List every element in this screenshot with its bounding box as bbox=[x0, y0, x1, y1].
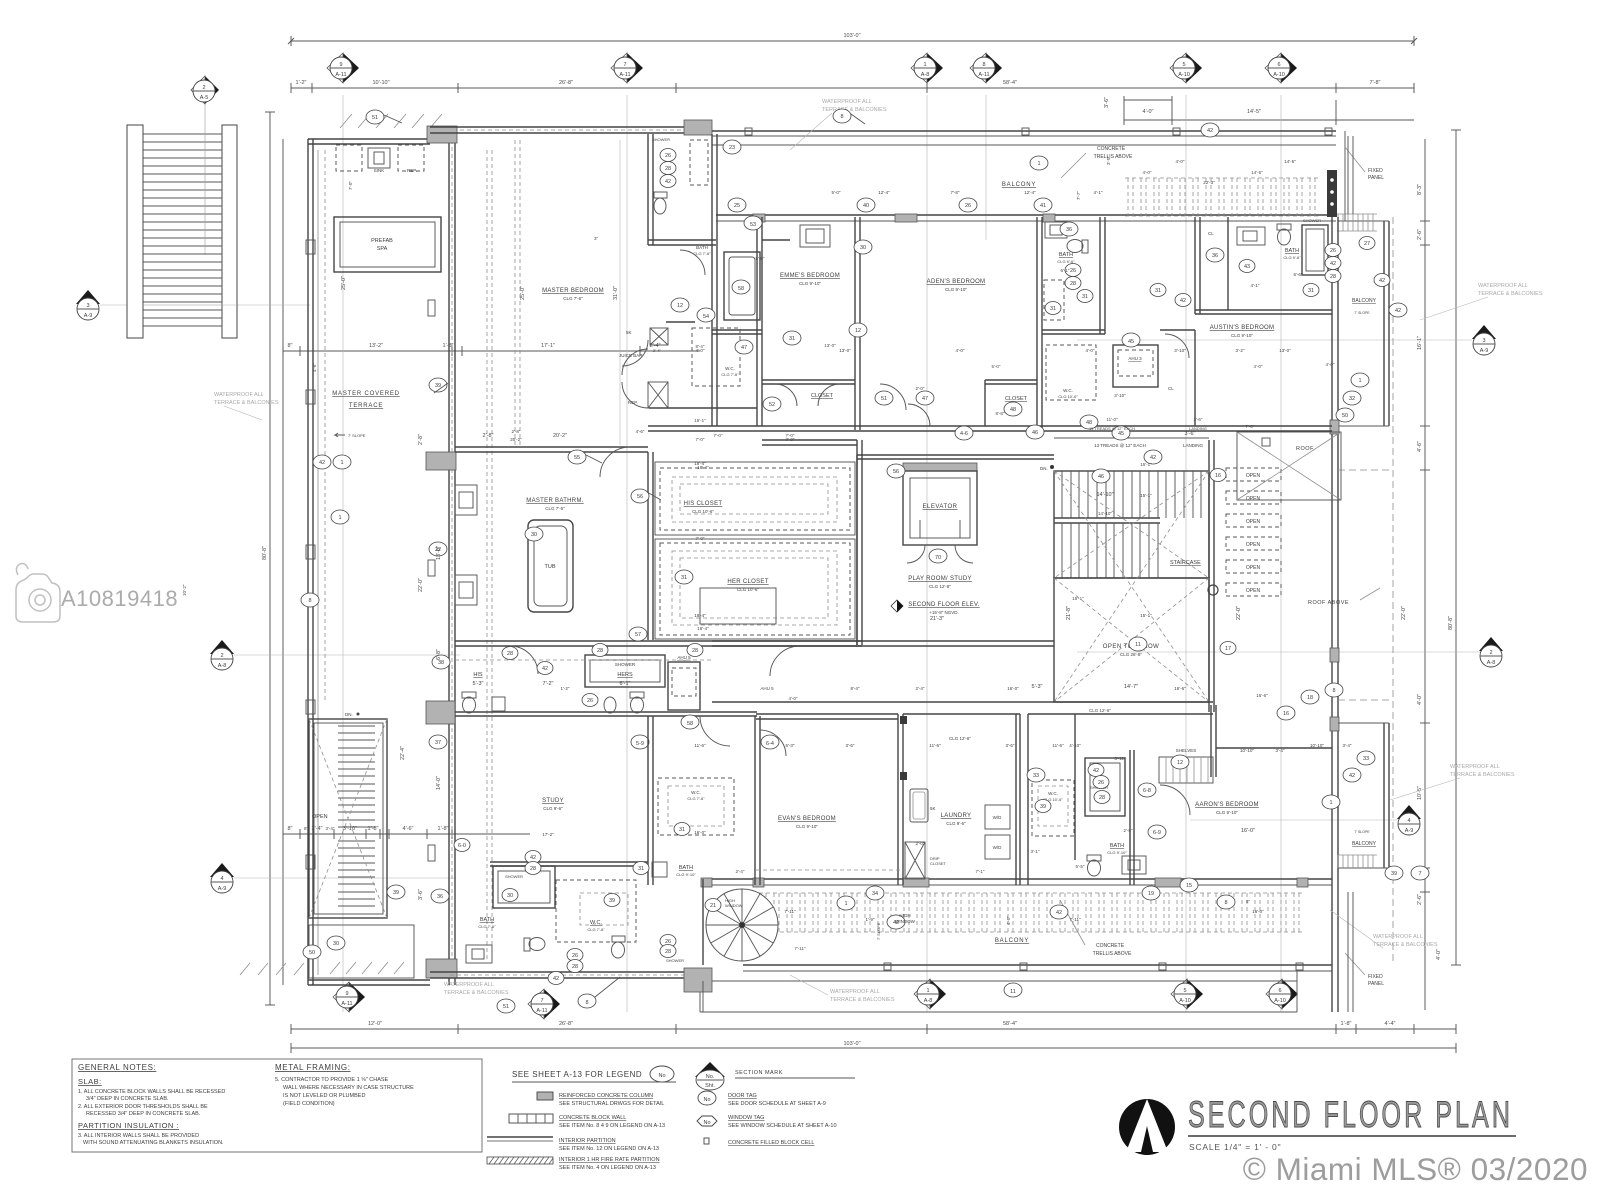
svg-text:W.C.: W.C. bbox=[1048, 791, 1058, 796]
svg-text:12'-0": 12'-0" bbox=[368, 1021, 382, 1027]
svg-text:SEE STRUCTURAL DRWGS FOR DETAI: SEE STRUCTURAL DRWGS FOR DETAIL bbox=[559, 1101, 664, 1107]
svg-text:17: 17 bbox=[1225, 646, 1231, 652]
roof box top bbox=[1237, 432, 1341, 500]
bottom dim lines bbox=[291, 1028, 1456, 1030]
marker 8/A-11 top bbox=[970, 53, 1002, 83]
staircase bbox=[1054, 471, 1209, 578]
svg-text:30: 30 bbox=[333, 941, 339, 947]
svg-text:6-0: 6-0 bbox=[458, 843, 466, 849]
svg-text:7: 7 bbox=[1418, 871, 1421, 877]
wc evans dashed bbox=[658, 778, 734, 835]
svg-text:2'-0": 2'-0" bbox=[916, 841, 925, 846]
marker 2/A-8 left bbox=[210, 640, 234, 670]
svg-text:30: 30 bbox=[531, 532, 537, 538]
svg-text:3'-6": 3'-6" bbox=[1104, 97, 1110, 108]
svg-text:28: 28 bbox=[572, 964, 578, 970]
svg-text:13'-2": 13'-2" bbox=[369, 343, 383, 349]
svg-text:TERRACE & BALCONIES: TERRACE & BALCONIES bbox=[1450, 772, 1515, 778]
svg-text:CLG 7'-6": CLG 7'-6" bbox=[587, 927, 605, 932]
svg-text:42: 42 bbox=[553, 976, 559, 982]
stair treads bbox=[143, 134, 222, 326]
svg-text:51: 51 bbox=[372, 115, 378, 121]
hers/his bath row walls bbox=[455, 712, 757, 716]
svg-text:WATERPROOF ALL: WATERPROOF ALL bbox=[1450, 764, 1500, 770]
svg-text:CONCRETE: CONCRETE bbox=[1096, 943, 1125, 949]
svg-text:TERRACE & BALCONIES: TERRACE & BALCONIES bbox=[822, 107, 887, 113]
svg-text:WINDOW TAG: WINDOW TAG bbox=[728, 1115, 764, 1121]
svg-text:No: No bbox=[658, 1073, 665, 1079]
svg-text:INTERIOR 1 HR FIRE RATE PARTIT: INTERIOR 1 HR FIRE RATE PARTITION bbox=[559, 1157, 660, 1163]
svg-text:CLG 7'-6": CLG 7'-6" bbox=[545, 506, 565, 511]
svg-text:40: 40 bbox=[863, 203, 869, 209]
svg-text:AHU 5: AHU 5 bbox=[760, 686, 774, 691]
svg-text:5'-0": 5'-0" bbox=[832, 190, 841, 195]
svg-text:26: 26 bbox=[1330, 248, 1336, 254]
svg-text:CLOSET: CLOSET bbox=[811, 393, 834, 399]
aden bath bbox=[1042, 330, 1105, 334]
svg-text:CLG 9'-6": CLG 9'-6" bbox=[946, 821, 966, 826]
svg-text:BATH: BATH bbox=[480, 917, 494, 923]
svg-text:DOOR TAG: DOOR TAG bbox=[728, 1093, 757, 1099]
svg-text:2'-4": 2'-4" bbox=[653, 348, 662, 353]
svg-text:8": 8" bbox=[1246, 899, 1251, 904]
svg-text:46: 46 bbox=[1098, 474, 1104, 480]
svg-text:23: 23 bbox=[729, 145, 735, 151]
AHU 5 bbox=[668, 662, 700, 710]
svg-text:A-10: A-10 bbox=[1178, 72, 1190, 78]
hall door arc bbox=[700, 716, 730, 746]
svg-text:W.C.: W.C. bbox=[725, 366, 735, 371]
svg-text:80'-8": 80'-8" bbox=[262, 546, 268, 560]
grid lines horizontal bbox=[100, 305, 1480, 878]
svg-text:12: 12 bbox=[855, 328, 861, 334]
svg-text:58: 58 bbox=[738, 286, 744, 292]
svg-text:8: 8 bbox=[308, 598, 311, 604]
svg-text:TRELLIS ABOVE: TRELLIS ABOVE bbox=[1094, 154, 1133, 160]
svg-text:SPA: SPA bbox=[377, 246, 388, 252]
svg-text:39: 39 bbox=[1391, 871, 1397, 877]
scattered tags bbox=[366, 110, 384, 124]
svg-text:4'-6": 4'-6" bbox=[403, 826, 414, 832]
logo bbox=[1119, 1099, 1175, 1155]
svg-text:3'-2": 3'-2" bbox=[1236, 348, 1245, 353]
roof above dashed line bbox=[1392, 217, 1394, 965]
svg-text:PLAY ROOM/ STUDY: PLAY ROOM/ STUDY bbox=[908, 576, 972, 582]
svg-text:3/4" DEEP IN CONCRETE SLAB.: 3/4" DEEP IN CONCRETE SLAB. bbox=[86, 1096, 169, 1102]
svg-text:16: 16 bbox=[1283, 711, 1289, 717]
svg-text:4'-0": 4'-0" bbox=[1326, 362, 1335, 367]
svg-text:15'-1": 15'-1" bbox=[1140, 462, 1152, 467]
svg-text:DN.: DN. bbox=[1040, 466, 1048, 471]
svg-text:EMME'S BEDROOM: EMME'S BEDROOM bbox=[780, 273, 840, 279]
svg-text:7' SLOPE: 7' SLOPE bbox=[1354, 830, 1370, 834]
svg-text:26: 26 bbox=[665, 153, 671, 159]
legend right: concrete filled block cell bbox=[704, 1138, 709, 1144]
svg-text:HERS: HERS bbox=[617, 672, 633, 678]
svg-text:BALCONY: BALCONY bbox=[995, 938, 1029, 944]
svg-text:2'-8": 2'-8" bbox=[418, 434, 424, 445]
svg-text:16: 16 bbox=[1215, 473, 1221, 479]
svg-text:6-8: 6-8 bbox=[1143, 788, 1151, 794]
svg-text:REINFORCED CONCRETE COLUMN: REINFORCED CONCRETE COLUMN bbox=[559, 1093, 653, 1099]
svg-text:12: 12 bbox=[1177, 760, 1183, 766]
svg-text:SHOWER: SHOWER bbox=[1303, 218, 1321, 223]
svg-text:13'-0": 13'-0" bbox=[839, 348, 851, 353]
emme bath corner bbox=[762, 239, 790, 241]
stair rail left bbox=[127, 125, 143, 338]
svg-text:MASTER COVERED: MASTER COVERED bbox=[332, 391, 400, 397]
svg-text:BALCONY: BALCONY bbox=[1352, 298, 1377, 304]
east house wall bbox=[1332, 217, 1338, 1012]
master bath NE block walls bbox=[648, 134, 653, 245]
svg-text:SHELVES: SHELVES bbox=[1176, 748, 1196, 753]
shower master bath bbox=[690, 140, 708, 185]
svg-text:37: 37 bbox=[435, 740, 441, 746]
svg-text:16'-0": 16'-0" bbox=[694, 830, 706, 835]
svg-text:TERRACE & BALCONIES: TERRACE & BALCONIES bbox=[444, 990, 509, 996]
svg-text:4'-0": 4'-0" bbox=[1417, 694, 1423, 705]
svg-text:42: 42 bbox=[1150, 455, 1156, 461]
south wall west part bbox=[430, 972, 703, 978]
svg-text:4'-0": 4'-0" bbox=[1254, 364, 1263, 369]
svg-text:1: 1 bbox=[926, 988, 929, 994]
svg-text:2'-8": 2'-8" bbox=[1124, 828, 1133, 833]
closet near aden bbox=[985, 380, 1037, 426]
svg-text:11'-0": 11'-0" bbox=[1106, 417, 1118, 422]
svg-text:9: 9 bbox=[339, 62, 342, 68]
svg-text:31: 31 bbox=[1155, 288, 1161, 294]
evans bedroom bbox=[756, 714, 898, 719]
svg-text:42: 42 bbox=[665, 179, 671, 185]
sink counter bbox=[336, 145, 362, 171]
svg-text:4'-0": 4'-0" bbox=[1176, 159, 1185, 164]
svg-text:4'-6": 4'-6" bbox=[636, 429, 645, 434]
tag circle 11 bottom right bbox=[1004, 983, 1022, 997]
svg-text:5. CONTRACTOR TO PROVIDE 1 ⅝: 5. CONTRACTOR TO PROVIDE 1 ⅝" CHASE bbox=[275, 1077, 389, 1083]
emme closet bbox=[762, 380, 855, 384]
svg-text:27: 27 bbox=[1364, 241, 1370, 247]
svg-text:2'-4": 2'-4" bbox=[736, 869, 745, 874]
ahu3 bbox=[1113, 345, 1158, 387]
svg-text:CLG 10'-6": CLG 10'-6" bbox=[737, 587, 759, 592]
svg-text:6-4: 6-4 bbox=[766, 741, 774, 747]
svg-text:3'-6": 3'-6" bbox=[1194, 417, 1203, 422]
svg-text:7'-0": 7'-0" bbox=[696, 536, 705, 541]
svg-text:A-11: A-11 bbox=[536, 1008, 547, 1014]
svg-text:No.: No. bbox=[706, 1074, 715, 1080]
svg-text:7'-7": 7'-7" bbox=[1076, 191, 1081, 200]
svg-text:4'-1": 4'-1" bbox=[1251, 283, 1260, 288]
svg-text:CLG 9'-10": CLG 9'-10" bbox=[676, 872, 696, 877]
svg-text:14'-5": 14'-5" bbox=[1284, 159, 1296, 164]
svg-text:31: 31 bbox=[1082, 294, 1088, 300]
svg-text:4'-6": 4'-6" bbox=[1417, 441, 1423, 452]
svg-text:50: 50 bbox=[309, 950, 315, 956]
svg-text:4'-4": 4'-4" bbox=[1385, 1021, 1396, 1027]
svg-text:42: 42 bbox=[1093, 768, 1099, 774]
east wall of staircase bbox=[1209, 440, 1214, 712]
svg-text:22'-4": 22'-4" bbox=[400, 746, 406, 760]
marker 4/A-9 right bbox=[1397, 805, 1421, 835]
svg-text:CLG 7'-6": CLG 7'-6" bbox=[687, 796, 705, 801]
svg-text:CLG 9'-6": CLG 9'-6" bbox=[543, 806, 563, 811]
svg-text:26: 26 bbox=[1098, 780, 1104, 786]
svg-text:42: 42 bbox=[1207, 128, 1213, 134]
svg-text:WATERPROOF ALL: WATERPROOF ALL bbox=[830, 989, 880, 995]
svg-text:SEE ITEM No. 8 4 9 ON LEGEND: SEE ITEM No. 8 4 9 ON LEGEND ON A-13 bbox=[559, 1123, 665, 1129]
wall above austin bbox=[1195, 310, 1332, 314]
svg-text:W.C.: W.C. bbox=[1063, 388, 1073, 393]
svg-text:DN.: DN. bbox=[345, 712, 353, 717]
svg-text:LANDING: LANDING bbox=[1189, 426, 1207, 431]
svg-text:REP.: REP. bbox=[407, 168, 417, 173]
svg-text:2: 2 bbox=[1489, 650, 1492, 656]
open slats bbox=[1226, 468, 1281, 481]
svg-text:11'-6": 11'-6" bbox=[1052, 743, 1064, 748]
svg-text:39: 39 bbox=[609, 898, 615, 904]
svg-text:CLG 7'-6": CLG 7'-6" bbox=[563, 296, 583, 301]
north wall master bedroom bbox=[430, 127, 712, 133]
svg-text:4-6: 4-6 bbox=[960, 431, 968, 437]
closet east wall bbox=[857, 440, 862, 645]
her closet dashed bbox=[660, 543, 850, 635]
svg-text:42: 42 bbox=[1056, 910, 1062, 916]
svg-text:CLG 12'-6": CLG 12'-6" bbox=[1089, 708, 1111, 713]
svg-text:STUDY: STUDY bbox=[542, 798, 564, 804]
svg-text:A-8: A-8 bbox=[218, 663, 227, 669]
band bottom wall bbox=[455, 641, 862, 646]
svg-text:3'-1": 3'-1" bbox=[1031, 849, 1040, 854]
svg-text:7'-0": 7'-0" bbox=[714, 433, 723, 438]
south balcony rail bbox=[743, 964, 1332, 966]
svg-text:12'-4": 12'-4" bbox=[1024, 190, 1036, 195]
svg-text:18: 18 bbox=[1307, 695, 1313, 701]
svg-text:22'-0": 22'-0" bbox=[1401, 606, 1407, 620]
his toilet bbox=[462, 692, 476, 698]
svg-text:WATERPROOF ALL: WATERPROOF ALL bbox=[1373, 934, 1423, 940]
svg-text:CLG 9'-10": CLG 9'-10" bbox=[1231, 333, 1253, 338]
svg-text:1'-9": 1'-9" bbox=[866, 917, 875, 922]
legend right: door tag bbox=[698, 1091, 716, 1105]
svg-text:31: 31 bbox=[789, 336, 795, 342]
svg-text:41: 41 bbox=[1040, 203, 1046, 209]
svg-text:45: 45 bbox=[1128, 339, 1134, 345]
svg-text:26: 26 bbox=[1070, 268, 1076, 274]
tag 53 bbox=[744, 216, 762, 230]
concrete column NW bbox=[427, 126, 457, 143]
svg-text:8'-4": 8'-4" bbox=[851, 686, 860, 691]
svg-text:8": 8" bbox=[287, 826, 292, 832]
concrete column W2 bbox=[426, 452, 456, 470]
general notes box bbox=[72, 1059, 482, 1152]
NE corner column bbox=[1327, 170, 1337, 217]
svg-text:WITH SOUND ATTENUATING BLANKET: WITH SOUND ATTENUATING BLANKETS INSULATI… bbox=[83, 1140, 224, 1146]
marker 9/A-11 top bbox=[327, 53, 359, 83]
svg-text:28: 28 bbox=[1330, 274, 1336, 280]
svg-text:A-11: A-11 bbox=[619, 72, 630, 78]
emme bath tub col bbox=[757, 217, 762, 426]
svg-text:CONCRETE: CONCRETE bbox=[1097, 146, 1126, 152]
svg-text:33: 33 bbox=[1363, 756, 1369, 762]
svg-text:5'-0": 5'-0" bbox=[992, 364, 1001, 369]
svg-text:A-9: A-9 bbox=[1480, 348, 1489, 354]
svg-text:70: 70 bbox=[935, 555, 941, 561]
svg-text:HIGH: HIGH bbox=[899, 913, 910, 918]
NE balcony bbox=[1384, 221, 1389, 426]
svg-text:OPEN: OPEN bbox=[1246, 588, 1261, 594]
svg-text:7'-0": 7'-0" bbox=[696, 437, 705, 442]
svg-text:IS NOT LEVELED OR PLUMBED: IS NOT LEVELED OR PLUMBED bbox=[283, 1093, 365, 1099]
svg-text:ROOF: ROOF bbox=[1296, 446, 1314, 452]
south window wall bbox=[703, 878, 1332, 880]
svg-text:5'-5": 5'-5" bbox=[1076, 864, 1085, 869]
marker 2/A-8 right bbox=[1479, 637, 1503, 667]
svg-text:103'-0": 103'-0" bbox=[843, 1041, 860, 1047]
svg-text:CL: CL bbox=[1208, 231, 1214, 236]
svg-text:A-8: A-8 bbox=[924, 998, 933, 1004]
svg-text:2'-6": 2'-6" bbox=[1417, 894, 1423, 905]
svg-text:GENERAL NOTES:: GENERAL NOTES: bbox=[78, 1063, 156, 1072]
svg-text:15: 15 bbox=[1186, 883, 1192, 889]
svg-text:AHU 3: AHU 3 bbox=[1128, 356, 1142, 361]
svg-text:6'-6": 6'-6" bbox=[1294, 272, 1303, 277]
svg-text:16'-0": 16'-0" bbox=[1241, 828, 1255, 834]
svg-text:31: 31 bbox=[1308, 288, 1314, 294]
wall south of playroom bbox=[712, 641, 1054, 646]
svg-text:47: 47 bbox=[922, 396, 928, 402]
top overall dim line 103'-0" bbox=[291, 40, 1414, 42]
svg-text:4'-0": 4'-0" bbox=[1006, 916, 1011, 925]
vanity master bath bbox=[455, 485, 477, 515]
svg-text:4'-8": 4'-8" bbox=[312, 363, 317, 372]
svg-text:39: 39 bbox=[393, 890, 399, 896]
svg-text:16'-6": 16'-6" bbox=[1256, 693, 1268, 698]
svg-text:Sht.: Sht. bbox=[705, 1083, 715, 1089]
svg-text:8'-4": 8'-4" bbox=[696, 344, 705, 349]
svg-text:OPEN: OPEN bbox=[1246, 542, 1261, 548]
svg-text:36: 36 bbox=[437, 894, 443, 900]
elevator bbox=[903, 463, 977, 471]
svg-text:OPEN: OPEN bbox=[1246, 519, 1261, 525]
marker 5/A-10 top bbox=[1170, 53, 1202, 83]
svg-text:6'-1": 6'-1" bbox=[620, 681, 631, 687]
svg-text:3'-10": 3'-10" bbox=[1114, 393, 1126, 398]
svg-text:16'-1": 16'-1" bbox=[1417, 336, 1423, 350]
svg-text:13'-0": 13'-0" bbox=[1279, 348, 1291, 353]
svg-text:56: 56 bbox=[893, 469, 899, 475]
legend: interior partition bbox=[487, 1136, 553, 1138]
svg-text:42: 42 bbox=[1330, 261, 1336, 267]
svg-text:26: 26 bbox=[587, 698, 593, 704]
svg-text:SECTION MARK: SECTION MARK bbox=[735, 1070, 783, 1076]
corridor top wall long bbox=[648, 426, 1332, 431]
svg-text:26'-8": 26'-8" bbox=[559, 1021, 573, 1027]
svg-text:BALCONY: BALCONY bbox=[1002, 182, 1036, 188]
svg-text:4'-0": 4'-0" bbox=[1086, 348, 1095, 353]
svg-text:WINDOW: WINDOW bbox=[895, 919, 915, 924]
svg-text:CLG 7'-6": CLG 7'-6" bbox=[721, 372, 739, 377]
svg-text:25'-0": 25'-0" bbox=[520, 286, 526, 300]
svg-text:7'-11": 7'-11" bbox=[784, 909, 796, 914]
svg-text:3'-10": 3'-10" bbox=[1174, 348, 1186, 353]
svg-text:A-9: A-9 bbox=[1405, 828, 1414, 834]
svg-text:2: 2 bbox=[202, 85, 205, 91]
svg-text:57: 57 bbox=[635, 632, 641, 638]
vertical dim master bedroom bbox=[619, 140, 621, 445]
svg-text:MASTER BATHRM.: MASTER BATHRM. bbox=[526, 498, 583, 504]
svg-text:28: 28 bbox=[1099, 795, 1105, 801]
marker 5/A-10 bottom bbox=[1171, 979, 1203, 1009]
svg-text:5: 5 bbox=[1182, 62, 1185, 68]
svg-text:5: 5 bbox=[1183, 988, 1186, 994]
svg-text:CLG 9'-10": CLG 9'-10" bbox=[796, 824, 818, 829]
svg-text:50: 50 bbox=[1342, 413, 1348, 419]
svg-text:8: 8 bbox=[840, 114, 843, 120]
svg-text:11: 11 bbox=[1010, 989, 1016, 995]
his sink bbox=[492, 697, 505, 711]
svg-text:4'-0": 4'-0" bbox=[1436, 949, 1442, 960]
column grid posts on west wall bbox=[428, 300, 435, 316]
svg-text:ROOF ABOVE: ROOF ABOVE bbox=[1308, 600, 1349, 606]
his closet dashed bbox=[660, 468, 850, 530]
concrete column SW bbox=[426, 959, 457, 978]
svg-text:31: 31 bbox=[679, 827, 685, 833]
svg-text:WALL WHERE NECESSARY IN CASE S: WALL WHERE NECESSARY IN CASE STRUCTURE bbox=[283, 1085, 414, 1091]
svg-text:21'-8": 21'-8" bbox=[1066, 606, 1072, 620]
svg-text:BATH: BATH bbox=[1110, 843, 1124, 849]
svg-text:CLG 12'-6": CLG 12'-6" bbox=[949, 736, 971, 741]
svg-text:10'-5": 10'-5" bbox=[1417, 786, 1423, 800]
svg-text:18'-4": 18'-4" bbox=[697, 626, 709, 631]
svg-text:42: 42 bbox=[530, 855, 536, 861]
svg-text:HIS CLOSET: HIS CLOSET bbox=[684, 501, 723, 507]
svg-text:FIXED: FIXED bbox=[1368, 168, 1383, 174]
svg-text:25: 25 bbox=[734, 203, 740, 209]
marker 1/A-8 top bbox=[911, 53, 943, 83]
svg-text:34: 34 bbox=[872, 891, 878, 897]
svg-text:10'-10": 10'-10" bbox=[1240, 748, 1254, 753]
terrace west outer wall bbox=[308, 139, 313, 985]
svg-text:28: 28 bbox=[530, 866, 536, 872]
tags shower bbox=[660, 149, 676, 162]
svg-text:25'-0": 25'-0" bbox=[341, 276, 347, 290]
inner mid dim line y834 bbox=[283, 833, 530, 835]
svg-text:28: 28 bbox=[665, 949, 671, 955]
svg-text:SHOWER: SHOWER bbox=[652, 137, 670, 142]
svg-text:SHOWER: SHOWER bbox=[615, 662, 636, 667]
emme room east wall bbox=[855, 217, 860, 430]
svg-text:16'-6": 16'-6" bbox=[1174, 686, 1186, 691]
svg-text:SECOND FLOOR ELEV.: SECOND FLOOR ELEV. bbox=[908, 602, 980, 608]
main west interior wall bbox=[449, 133, 455, 985]
svg-text:SINK: SINK bbox=[374, 168, 385, 173]
terrace dashed lines bbox=[487, 150, 492, 960]
svg-text:CL: CL bbox=[1168, 386, 1174, 391]
north trellis hatch bbox=[1128, 178, 1315, 216]
corridor dashed centerline bbox=[455, 659, 712, 661]
svg-text:8'-3": 8'-3" bbox=[1417, 184, 1423, 195]
svg-text:PANEL: PANEL bbox=[1368, 981, 1384, 987]
top right sub dims bbox=[1124, 119, 1414, 121]
svg-text:14'-10": 14'-10" bbox=[1098, 511, 1112, 516]
svg-text:26: 26 bbox=[965, 203, 971, 209]
svg-text:7'-0": 7'-0" bbox=[348, 181, 353, 190]
svg-text:3'-6": 3'-6" bbox=[1185, 431, 1196, 437]
svg-text:RECESSED 3/4" DEEP IN CONCRETE: RECESSED 3/4" DEEP IN CONCRETE SLAB. bbox=[86, 1111, 201, 1117]
svg-text:1: 1 bbox=[1358, 378, 1361, 384]
shower center bbox=[585, 655, 665, 687]
svg-text:14'-5": 14'-5" bbox=[1247, 109, 1261, 115]
